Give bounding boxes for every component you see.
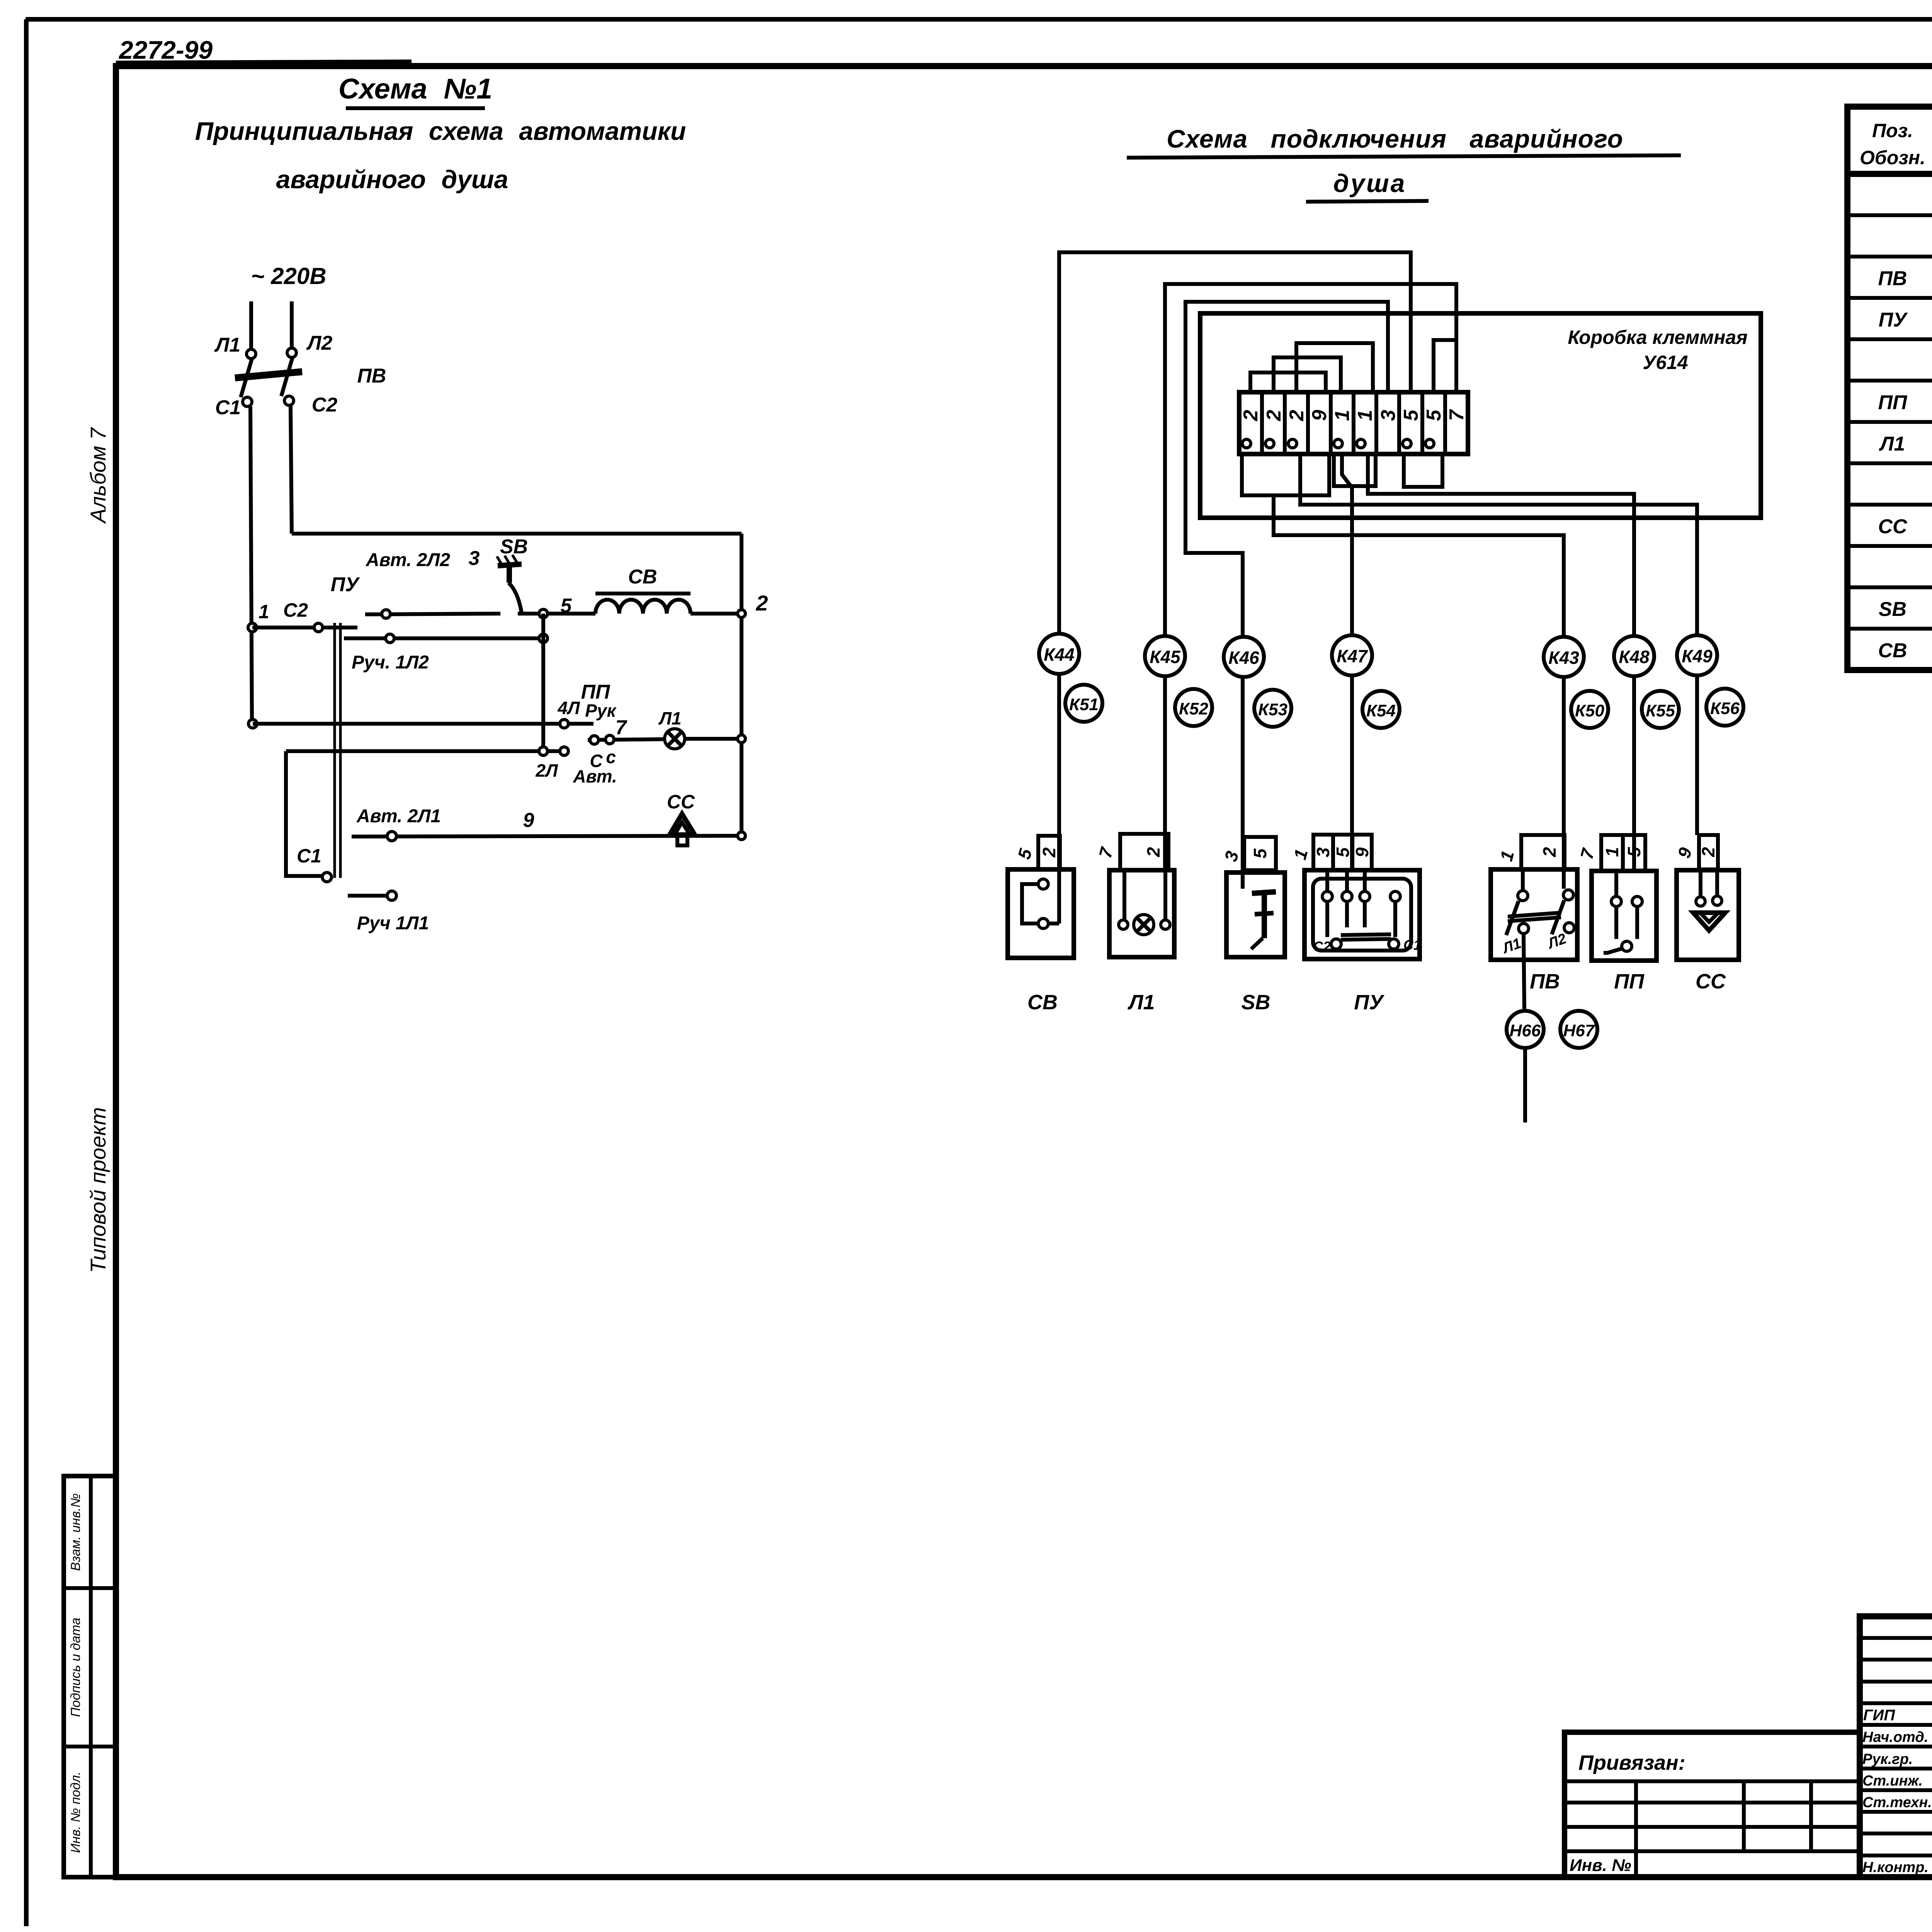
label СС bbox=[1696, 970, 1726, 993]
label С bbox=[590, 751, 603, 771]
marker К51 bbox=[1065, 685, 1102, 722]
svg-text:К51: К51 bbox=[1069, 695, 1099, 714]
svg-text:ПП: ПП bbox=[1878, 391, 1908, 414]
svg-text:SВ: SВ bbox=[1879, 598, 1906, 621]
label 1 bbox=[259, 601, 269, 622]
svg-text:1: 1 bbox=[259, 601, 269, 622]
svg-text:2: 2 bbox=[755, 591, 768, 615]
svg-text:Ст.инж.: Ст.инж. bbox=[1862, 1773, 1923, 1789]
sheet outer border left bbox=[24, 19, 29, 1926]
svg-text:ГИП: ГИП bbox=[1863, 1707, 1895, 1724]
stamp row ГИП bbox=[1863, 1706, 1932, 1724]
marker Н67 bbox=[1560, 1011, 1597, 1048]
svg-text:ПУ: ПУ bbox=[1879, 309, 1908, 331]
svg-text:К47: К47 bbox=[1337, 646, 1368, 666]
wire row3 right segment bbox=[518, 612, 595, 616]
svg-text:ПУ: ПУ bbox=[331, 573, 360, 596]
svg-text:Авт. 2Л1: Авт. 2Л1 bbox=[356, 806, 441, 827]
switch ПВ blade left bbox=[241, 359, 252, 397]
label Авт. 2Л1 bbox=[356, 806, 441, 827]
wire L1 drop bbox=[249, 301, 253, 349]
node С contact bbox=[590, 736, 599, 744]
label ПП bbox=[581, 681, 611, 703]
node С2 contact bbox=[314, 623, 323, 632]
title душа bbox=[1306, 169, 1429, 202]
wire К49 drop lower bbox=[1695, 635, 1699, 835]
svg-text:SВ: SВ bbox=[1241, 991, 1270, 1014]
svg-text:Авт.: Авт. bbox=[573, 766, 617, 786]
С1 box wire bbox=[286, 751, 322, 876]
node row9 contact bbox=[387, 832, 396, 841]
switch ПВ linkage bar bbox=[235, 372, 302, 378]
svg-text:2: 2 bbox=[1286, 410, 1308, 421]
title Схема подключения аварийного bbox=[1127, 124, 1681, 158]
component СС box bbox=[1677, 870, 1739, 960]
marker К47 bbox=[1332, 635, 1372, 675]
node С1 terminal bbox=[243, 397, 252, 406]
node С1 bottom bbox=[322, 872, 332, 882]
svg-text:СС: СС bbox=[667, 791, 695, 813]
svg-text:К44: К44 bbox=[1044, 645, 1074, 665]
node lamp bus bbox=[738, 735, 745, 743]
svg-text:К52: К52 bbox=[1179, 699, 1209, 718]
svg-text:2: 2 bbox=[1263, 410, 1285, 421]
svg-text:SВ: SВ bbox=[500, 536, 528, 558]
marker К52 bbox=[1175, 689, 1212, 726]
svg-text:Л1: Л1 bbox=[1127, 991, 1155, 1014]
wire loop 2 Л1 bbox=[1165, 284, 1456, 636]
title line 2 bbox=[195, 117, 686, 145]
svg-text:2272-99: 2272-99 bbox=[118, 36, 213, 64]
node 4Л contact bbox=[560, 719, 568, 728]
supply label ~220В bbox=[251, 263, 326, 289]
label Авт. 2Л2 bbox=[366, 550, 450, 570]
marker К50 bbox=[1571, 691, 1608, 728]
svg-text:Авт. 2Л2: Авт. 2Л2 bbox=[366, 550, 450, 570]
svg-text:3: 3 bbox=[1377, 410, 1400, 421]
wire loop small b bbox=[1274, 357, 1341, 392]
label 5 bbox=[561, 595, 572, 617]
svg-text:душа: душа bbox=[1333, 169, 1406, 197]
node С2 terminal bbox=[284, 396, 294, 405]
wire row 9 bbox=[352, 836, 742, 837]
label SВ bbox=[500, 536, 528, 558]
svg-text:Л2: Л2 bbox=[306, 332, 333, 354]
label 2 bbox=[755, 591, 768, 615]
wire loop 1 СВ bbox=[1059, 252, 1411, 634]
svg-text:К49: К49 bbox=[1682, 646, 1713, 666]
svg-text:2: 2 bbox=[1698, 847, 1718, 857]
title block stamp frame bbox=[1860, 1616, 1932, 1877]
svg-text:Нач.отд.: Нач.отд. bbox=[1862, 1729, 1928, 1745]
svg-text:1: 1 bbox=[1602, 847, 1622, 857]
label Рук bbox=[585, 701, 617, 721]
svg-text:9: 9 bbox=[1352, 847, 1372, 857]
pin label 7 Л1 bbox=[1095, 845, 1117, 861]
lamp Л1 bbox=[665, 729, 685, 749]
component Л1 pin rect bbox=[1120, 834, 1168, 870]
wire row 2Л bbox=[286, 749, 564, 753]
wire loop 3 SВ bbox=[1185, 302, 1388, 637]
svg-text:ПВ: ПВ bbox=[357, 365, 386, 387]
marker К49 bbox=[1677, 635, 1717, 675]
label Авт. bbox=[573, 766, 617, 786]
svg-text:Руч. 1Л2: Руч. 1Л2 bbox=[352, 652, 429, 673]
svg-text:9: 9 bbox=[523, 809, 534, 832]
label Л1 lamp bbox=[658, 708, 681, 728]
row СС bbox=[1878, 515, 1932, 539]
sheet outer border top bbox=[26, 17, 1932, 22]
svg-text:Поз.: Поз. bbox=[1872, 120, 1913, 141]
wire lamp to bus bbox=[685, 737, 742, 741]
stamp row Рук.гр. bbox=[1862, 1749, 1932, 1767]
node Руч 1Л1 bbox=[387, 891, 396, 900]
svg-text:3: 3 bbox=[469, 547, 480, 570]
stamp row Нач.отд bbox=[1862, 1727, 1932, 1745]
wire ПВ to Н66 bbox=[1524, 934, 1524, 1011]
svg-text:Типовой проект: Типовой проект bbox=[86, 1107, 110, 1273]
СС inner horn bbox=[1693, 869, 1725, 930]
svg-text:Коробка клеммная: Коробка клеммная bbox=[1568, 327, 1747, 348]
svg-text:СС: СС bbox=[1696, 970, 1726, 993]
label 3 bbox=[469, 547, 480, 570]
stub box below cells 8-9 bbox=[1404, 454, 1442, 487]
wire Руч 1Л1 stub bbox=[348, 894, 387, 898]
label SВ bbox=[1241, 991, 1270, 1014]
parts table row lines bbox=[1847, 215, 1932, 629]
ПП inner contacts bbox=[1604, 871, 1642, 953]
left margin cells box bbox=[64, 1476, 116, 1877]
label 9 bbox=[523, 809, 534, 832]
wire top horizontal to right bus bbox=[292, 532, 742, 536]
node 2Л contact bbox=[560, 747, 568, 755]
document number 2272-99 bbox=[116, 36, 412, 64]
svg-text:Л1: Л1 bbox=[1879, 433, 1905, 455]
svg-text:СВ: СВ bbox=[628, 566, 657, 588]
svg-text:СВ: СВ bbox=[1878, 639, 1907, 662]
wire row7 lamp line bbox=[588, 739, 665, 740]
title line 3 bbox=[276, 165, 509, 194]
svg-text:5: 5 bbox=[1400, 409, 1422, 421]
wire row2 Руч.1Л2 bbox=[344, 636, 543, 640]
pin label 7 ПП bbox=[1577, 846, 1599, 862]
svg-text:Рук.гр.: Рук.гр. bbox=[1862, 1751, 1913, 1767]
ПУ shaft bar left bbox=[333, 623, 336, 878]
header Поз Обозн bbox=[1860, 120, 1925, 168]
wire loop small a bbox=[1250, 372, 1326, 392]
wire coil to bus bbox=[690, 612, 742, 616]
svg-text:СВ: СВ bbox=[1027, 991, 1058, 1014]
svg-text:С2: С2 bbox=[1313, 939, 1331, 954]
marker К55 bbox=[1642, 691, 1679, 728]
wire row3 left segment bbox=[365, 614, 500, 614]
svg-text:К43: К43 bbox=[1548, 648, 1579, 668]
Л1 inner lamp bbox=[1119, 870, 1170, 935]
pin label 1 ПУ bbox=[1290, 847, 1312, 862]
svg-text:С1: С1 bbox=[297, 845, 321, 867]
button SB actuator bbox=[497, 555, 522, 613]
svg-text:Н66: Н66 bbox=[1510, 1021, 1541, 1040]
label ПВ bbox=[1530, 970, 1560, 993]
stamp row lines bbox=[1860, 1638, 1932, 1855]
svg-text:Принципиальная схема автоматик: Принципиальная схема автоматики bbox=[195, 117, 686, 145]
label Инв № bbox=[1570, 1856, 1631, 1875]
svg-text:1: 1 bbox=[1331, 410, 1354, 421]
label Л1 bbox=[214, 334, 241, 356]
wire С2 down bbox=[291, 405, 292, 534]
svg-text:Взам. инв.№: Взам. инв.№ bbox=[68, 1493, 83, 1571]
marker К46 bbox=[1224, 637, 1264, 677]
svg-text:с: с bbox=[606, 747, 616, 767]
marker К48 bbox=[1614, 636, 1654, 676]
component ПП box bbox=[1592, 871, 1656, 961]
svg-text:Рук: Рук bbox=[585, 701, 617, 721]
wire jog cell9 bbox=[1434, 340, 1456, 392]
svg-text:7: 7 bbox=[616, 716, 628, 739]
terminal point circles bbox=[1242, 439, 1434, 448]
component ПП pin rects bbox=[1601, 835, 1645, 871]
node row 2Л left bbox=[539, 747, 548, 755]
stamp row Н.контр bbox=[1862, 1857, 1932, 1876]
svg-text:Обозн.: Обозн. bbox=[1860, 147, 1925, 168]
svg-text:С2: С2 bbox=[312, 394, 338, 416]
component SВ pin rect bbox=[1244, 837, 1276, 870]
svg-text:ПП: ПП bbox=[1614, 970, 1645, 993]
svg-text:~ 220В: ~ 220В bbox=[251, 263, 326, 289]
row ПВ bbox=[1878, 267, 1932, 291]
label С1 box bbox=[297, 845, 321, 867]
ПВ inner switch bbox=[1500, 869, 1574, 957]
component Л1 box bbox=[1109, 870, 1174, 957]
component СВ pin rect bbox=[1038, 836, 1060, 869]
svg-text:К50: К50 bbox=[1575, 701, 1605, 720]
marker К45 bbox=[1145, 636, 1185, 676]
svg-text:5: 5 bbox=[1624, 847, 1644, 857]
node left bus bottom bbox=[248, 719, 257, 728]
pin label 9 СС bbox=[1674, 845, 1696, 861]
label Взам. инв. № bbox=[68, 1493, 83, 1571]
coil СВ bbox=[595, 600, 690, 614]
svg-text:С2: С2 bbox=[283, 599, 308, 621]
svg-text:К45: К45 bbox=[1150, 647, 1181, 667]
row SВ bbox=[1879, 598, 1932, 621]
svg-text:Инв. №: Инв. № bbox=[1570, 1856, 1631, 1875]
svg-text:Ст.техн.: Ст.техн. bbox=[1862, 1794, 1932, 1811]
terminal digits bbox=[1240, 409, 1468, 421]
label 2Л bbox=[535, 760, 558, 781]
label СС schema1 bbox=[667, 791, 695, 813]
label Л1 bbox=[1127, 991, 1155, 1014]
siren СС symbol bbox=[670, 814, 695, 845]
node row9 bus end bbox=[738, 832, 745, 840]
label 7 bbox=[616, 716, 628, 739]
label с bbox=[606, 747, 616, 767]
component ПВ box bbox=[1491, 869, 1577, 960]
component СВ box bbox=[1008, 869, 1074, 958]
label Подпись и дата bbox=[68, 1617, 83, 1717]
svg-text:С1: С1 bbox=[215, 396, 241, 419]
terminal strip bbox=[1239, 392, 1468, 454]
wire К44 drop bbox=[1057, 634, 1061, 923]
title Схема №1 bbox=[338, 73, 492, 108]
svg-text:К56: К56 bbox=[1710, 699, 1740, 718]
node 1 on left bus bbox=[248, 623, 257, 632]
svg-text:2: 2 bbox=[1240, 410, 1262, 421]
svg-text:5: 5 bbox=[1333, 847, 1353, 857]
node 5 bbox=[539, 609, 548, 618]
row СВ bbox=[1878, 639, 1932, 663]
wire К47 drop with jog bbox=[1342, 454, 1352, 635]
svg-text:СС: СС bbox=[1878, 515, 1908, 538]
svg-text:2: 2 bbox=[1039, 847, 1059, 858]
label 4Л bbox=[557, 698, 580, 718]
svg-text:ПВ: ПВ bbox=[1530, 970, 1560, 993]
label С2 bbox=[312, 394, 338, 416]
pin label 5 СВ bbox=[1014, 846, 1036, 862]
svg-text:К53: К53 bbox=[1258, 700, 1287, 719]
node row2 contact bbox=[386, 634, 394, 643]
stamp row Ст.инж. bbox=[1862, 1771, 1932, 1789]
node с contact bbox=[605, 735, 614, 744]
wire К46 drop bbox=[1241, 637, 1245, 889]
svg-text:7: 7 bbox=[1446, 409, 1468, 421]
row ПУ bbox=[1879, 309, 1932, 332]
label Руч. 1Л2 bbox=[352, 652, 429, 673]
svg-text:У614: У614 bbox=[1643, 352, 1688, 373]
svg-text:9: 9 bbox=[1308, 410, 1331, 421]
component ПУ pin rects bbox=[1313, 835, 1372, 870]
marker К54 bbox=[1362, 691, 1400, 728]
wire К48 drop lower bbox=[1632, 636, 1636, 871]
СВ inner contacts bbox=[1022, 879, 1059, 929]
row Л1 bbox=[1879, 433, 1932, 456]
label ПВ bbox=[357, 365, 386, 387]
svg-text:Привязан:: Привязан: bbox=[1578, 1751, 1685, 1774]
svg-text:К54: К54 bbox=[1366, 701, 1396, 720]
svg-text:5: 5 bbox=[1250, 848, 1270, 859]
svg-text:2: 2 bbox=[1539, 847, 1560, 857]
wire row 4Л bbox=[253, 722, 594, 726]
svg-text:2Л: 2Л bbox=[535, 760, 558, 781]
svg-text:Руч 1Л1: Руч 1Л1 bbox=[357, 913, 429, 934]
component СС pin rect bbox=[1698, 835, 1718, 869]
wire left bus С1 bbox=[250, 406, 252, 719]
label ПУ bbox=[331, 573, 360, 596]
pin label 3 SВ bbox=[1221, 849, 1243, 864]
label У614 bbox=[1643, 352, 1688, 373]
label СВ bbox=[595, 566, 690, 594]
svg-text:Подпись и дата: Подпись и дата bbox=[68, 1617, 83, 1717]
label Коробка клеммная bbox=[1568, 327, 1747, 348]
svg-text:Альбом 7: Альбом 7 bbox=[86, 427, 110, 524]
svg-text:4Л: 4Л bbox=[557, 698, 580, 718]
stub box below cells 5-6 bbox=[1334, 454, 1376, 486]
label С2 row1 bbox=[283, 599, 308, 621]
wire row1 С2 bbox=[252, 626, 357, 629]
marker К43 bbox=[1544, 637, 1584, 677]
marker К44 bbox=[1039, 634, 1079, 674]
svg-text:2: 2 bbox=[1143, 847, 1163, 857]
svg-text:Л1: Л1 bbox=[214, 334, 241, 356]
label С1 bbox=[215, 396, 241, 419]
wire R1 to К48 bbox=[1368, 454, 1634, 636]
svg-text:5: 5 bbox=[1423, 409, 1445, 421]
ПУ inner contacts bbox=[1313, 870, 1421, 954]
svg-text:Схема подключения аварийного: Схема подключения аварийного bbox=[1167, 124, 1623, 153]
svg-text:К46: К46 bbox=[1228, 648, 1259, 668]
marker К53 bbox=[1254, 690, 1291, 727]
svg-text:Н.контр.: Н.контр. bbox=[1862, 1859, 1929, 1876]
svg-text:К48: К48 bbox=[1619, 647, 1650, 667]
label ПП bbox=[1614, 970, 1645, 993]
svg-text:ПП: ПП bbox=[581, 681, 611, 703]
svg-text:аварийного душа: аварийного душа bbox=[276, 165, 509, 194]
wire R4 to К43 bbox=[1274, 495, 1564, 637]
marker К56 bbox=[1706, 689, 1743, 726]
component ПВ pin rect bbox=[1521, 835, 1565, 869]
svg-text:С1: С1 bbox=[1403, 937, 1421, 953]
Привязан box bbox=[1565, 1732, 1860, 1877]
node row2 right bbox=[539, 634, 548, 643]
node Л1 terminal bbox=[247, 349, 256, 359]
label Л2 bbox=[306, 332, 333, 354]
wire R2 to К49 bbox=[1300, 454, 1697, 635]
svg-text:Л1: Л1 bbox=[658, 708, 681, 728]
stub box below cells 1-3 bbox=[1242, 454, 1329, 495]
svg-text:Н67: Н67 bbox=[1563, 1021, 1595, 1040]
wire К47 drop lower bbox=[1350, 635, 1354, 870]
SВ inner button bbox=[1251, 892, 1276, 949]
parts table frame bbox=[1847, 107, 1932, 670]
svg-text:К55: К55 bbox=[1646, 701, 1675, 720]
node Л2 terminal bbox=[287, 348, 296, 357]
svg-text:ПУ: ПУ bbox=[1354, 991, 1384, 1014]
label Инв. № подл. bbox=[68, 1772, 83, 1853]
left margin label Типовой проект bbox=[86, 1107, 110, 1273]
label Привязан: bbox=[1578, 1751, 1685, 1774]
terminal box Коробка клеммная У614 bbox=[1200, 313, 1761, 518]
label Руч 1Л1 bbox=[357, 913, 429, 934]
wire below Н66 bbox=[1523, 1048, 1527, 1122]
svg-text:5: 5 bbox=[561, 595, 572, 617]
wire loop small c bbox=[1296, 343, 1373, 392]
svg-text:3: 3 bbox=[1313, 847, 1333, 857]
left margin label Альбом 7 bbox=[86, 427, 110, 524]
svg-text:Инв. № подл.: Инв. № подл. bbox=[68, 1772, 83, 1853]
wire vertical node5 down bbox=[541, 614, 545, 751]
switch ПВ blade right bbox=[281, 357, 293, 396]
node on row3 bbox=[382, 610, 390, 618]
component ПУ box bbox=[1304, 870, 1420, 959]
marker Н66 bbox=[1507, 1011, 1544, 1048]
component SВ box bbox=[1226, 872, 1285, 957]
wire К43 drop lower bbox=[1562, 637, 1566, 889]
pin label 1 ПВ bbox=[1496, 849, 1518, 863]
ПУ shaft bar right bbox=[339, 623, 342, 878]
wire right bus bbox=[740, 534, 743, 836]
svg-text:ПВ: ПВ bbox=[1878, 267, 1907, 290]
wire К45 drop bbox=[1163, 636, 1167, 870]
stamp row Ст.техн. bbox=[1862, 1793, 1932, 1811]
label ПУ bbox=[1354, 991, 1384, 1014]
svg-text:1: 1 bbox=[1354, 410, 1376, 421]
node 2 bbox=[738, 610, 745, 617]
svg-text:Схема №1: Схема №1 bbox=[338, 73, 492, 105]
row ПП bbox=[1878, 391, 1932, 415]
label СВ bbox=[1027, 991, 1058, 1014]
wire L2 drop bbox=[290, 301, 294, 348]
